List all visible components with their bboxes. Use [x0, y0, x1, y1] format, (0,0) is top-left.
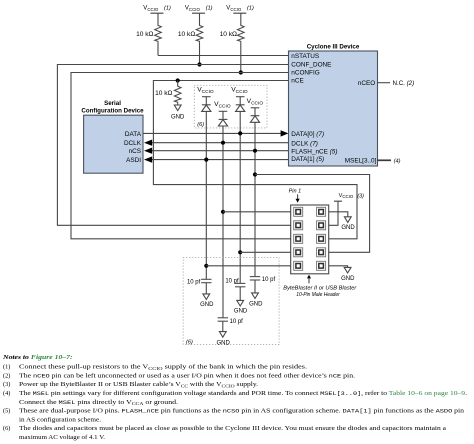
- diode D1: [202, 97, 211, 112]
- wire DCLK with arrow into serial device: [144, 140, 289, 146]
- svg-text:(3): (3): [357, 194, 364, 200]
- svg-text:ASDI: ASDI: [126, 157, 141, 164]
- wire nCS with arrow into serial device: [144, 148, 289, 154]
- wire nSTATUS: [158, 55, 289, 57]
- diode D2: [218, 111, 227, 126]
- svg-text:Cyclone III Device: Cyclone III Device: [307, 43, 360, 50]
- power symbol VCCIO for diode D2: [214, 101, 231, 111]
- wire R2 to CONF_DONE: [199, 43, 201, 65]
- power symbol VCCIO for diode D1: [197, 87, 214, 97]
- svg-text:(1): (1): [3, 364, 10, 371]
- wire nCONFIG with left loop to header pin5: [71, 73, 291, 239]
- svg-text:VCCIO: VCCIO: [185, 6, 201, 12]
- svg-text:FLASH_nCE (5): FLASH_nCE (5): [291, 148, 337, 155]
- ground GND header pin10: [329, 266, 355, 282]
- svg-text:Power up the ByteBlaster II or: Power up the ByteBlaster II or USB Blast…: [19, 381, 258, 388]
- svg-text:VCCIO: VCCIO: [143, 6, 159, 12]
- wire R3 to nCONFIG: [240, 43, 242, 73]
- svg-text:VCCIO: VCCIO: [214, 101, 231, 109]
- label Pin 1 with arrow: [289, 189, 302, 203]
- svg-text:The MSEL pin settings vary for: The MSEL pin settings vary for different…: [19, 390, 468, 397]
- svg-text:The diodes and capacitors must: The diodes and capacitors must be placed…: [19, 425, 446, 432]
- svg-text:DCLK: DCLK: [124, 140, 142, 147]
- svg-text:(3): (3): [3, 381, 10, 388]
- svg-text:The nCEO pin can be left uncon: The nCEO pin can be left unconnected or …: [19, 372, 356, 379]
- svg-text:(2): (2): [3, 372, 10, 379]
- svg-text:nCEO: nCEO: [358, 80, 375, 87]
- svg-text:N.C. (2): N.C. (2): [393, 80, 415, 87]
- junction R3-nCONFIG: [239, 70, 243, 74]
- junction N2-header row1: [221, 210, 225, 214]
- svg-text:(1): (1): [247, 6, 254, 12]
- svg-text:10 pf: 10 pf: [262, 277, 276, 283]
- pin 3 pad: [294, 221, 303, 230]
- pin 8 pad: [317, 248, 326, 257]
- dashed box diodes (6): [194, 85, 267, 128]
- power symbol VCCIO for diode D3: [231, 87, 248, 97]
- junction N3-header row4: [238, 250, 242, 254]
- wire nCE loop to header pin6: [153, 81, 357, 239]
- power symbol VCCIO (1) for R1: [143, 6, 171, 14]
- capacitor C1 10 pf: [187, 279, 212, 285]
- svg-text:(4): (4): [3, 390, 10, 397]
- ground GND below C1: [200, 283, 214, 309]
- svg-text:10 kΩ: 10 kΩ: [178, 31, 195, 38]
- svg-text:Pin 1: Pin 1: [289, 189, 302, 195]
- diode D3: [236, 97, 245, 112]
- junction N1-header row5: [204, 264, 208, 268]
- svg-text:VCCIO: VCCIO: [226, 6, 242, 12]
- svg-text:(5): (5): [3, 408, 10, 415]
- dashed box capacitors (6): [183, 257, 279, 345]
- svg-text:10 kΩ: 10 kΩ: [136, 31, 153, 38]
- svg-text:10 kΩ: 10 kΩ: [220, 31, 237, 38]
- pin 7 pad: [294, 248, 303, 257]
- svg-text:(6): (6): [3, 425, 10, 432]
- junction N4-nCS: [253, 149, 257, 153]
- junction N4-loop to pin8: [253, 172, 257, 176]
- svg-text:GND: GND: [341, 276, 355, 282]
- svg-text:nCONFIG: nCONFIG: [291, 69, 319, 76]
- svg-text:GND: GND: [341, 225, 355, 231]
- diode D4: [250, 108, 259, 122]
- wire R1 to nSTATUS: [157, 43, 159, 56]
- junction N2-DCLK: [221, 141, 225, 145]
- svg-text:DCLK (7): DCLK (7): [291, 140, 318, 147]
- svg-text:VCCIO: VCCIO: [339, 193, 354, 199]
- ground GND below C4: [249, 280, 263, 307]
- svg-text:10-Pin Male Header: 10-Pin Male Header: [296, 292, 340, 298]
- svg-text:ByteBlaster II or USB Blaster: ByteBlaster II or USB Blaster: [283, 286, 357, 292]
- svg-text:10 pf: 10 pf: [225, 279, 239, 285]
- junction R2-CONF_DONE: [197, 62, 201, 66]
- svg-text:10 pf: 10 pf: [230, 319, 244, 325]
- wire nCEO to N.C.: [378, 82, 391, 84]
- svg-text:nCE: nCE: [291, 78, 303, 85]
- wire ASDI with arrow into serial device: [144, 156, 289, 162]
- svg-text:GND: GND: [200, 302, 214, 308]
- pin 6 pad: [317, 234, 326, 243]
- resistor R4 10 kOhm nCE pulldown: [155, 81, 181, 104]
- header connector J1 body: [291, 205, 329, 274]
- svg-text:GND: GND: [171, 115, 185, 121]
- svg-text:MSEL[3..0]: MSEL[3..0]: [345, 157, 377, 164]
- capacitor C3 10 pf: [225, 279, 245, 287]
- svg-text:(6): (6): [197, 122, 204, 128]
- svg-text:(4): (4): [394, 158, 401, 164]
- svg-text:VCCIO: VCCIO: [231, 87, 248, 95]
- junction nCE pulldown: [176, 78, 180, 82]
- wire DATA to DATA[0] with arrow into Cyclone: [143, 130, 288, 136]
- svg-text:Connect the MSEL pins directly: Connect the MSEL pins directly to VCCA o…: [19, 399, 179, 406]
- svg-text:VCCIO: VCCIO: [247, 98, 264, 106]
- pin 4 pad: [317, 221, 326, 230]
- wire MSEL stub: [378, 159, 392, 161]
- svg-text:DATA[1] (5): DATA[1] (5): [291, 156, 324, 163]
- svg-text:(1): (1): [206, 6, 213, 12]
- svg-text:GND: GND: [217, 340, 231, 346]
- pin 1 pad: [294, 207, 303, 216]
- svg-text:(6): (6): [186, 340, 193, 346]
- Cyclone III device U1: [289, 43, 378, 166]
- pin 10 pad: [317, 261, 326, 270]
- svg-text:GND: GND: [234, 309, 248, 315]
- wire DCLK to header pin1: [223, 211, 291, 213]
- wire CONF_DONE with left loop to header pin3: [57, 65, 290, 226]
- capacitor C4 10 pf: [250, 277, 276, 283]
- label ByteBlaster with leader arrow: [283, 275, 357, 298]
- wire net DATA0 vertical N3: [239, 112, 241, 284]
- ground GND below R4: [171, 103, 185, 120]
- svg-text:Connect these pull-up resistor: Connect these pull-up resistors to the V…: [19, 364, 308, 371]
- pin 5 pad: [294, 234, 303, 243]
- svg-text:10 pf: 10 pf: [187, 279, 201, 285]
- svg-text:nCS: nCS: [129, 148, 141, 155]
- power symbol VCCIO for diode D4: [247, 98, 264, 108]
- serial configuration device U2: [81, 100, 144, 173]
- junction N1-ASDI: [204, 158, 208, 162]
- junction N3-DATA: [238, 131, 242, 135]
- power symbol VCCIO (1) for R2: [185, 6, 213, 14]
- svg-text:in AS configuration scheme.: in AS configuration scheme.: [19, 416, 101, 423]
- svg-text:(1): (1): [164, 6, 171, 12]
- wire net DCLK vertical N2: [222, 126, 224, 318]
- wire net ASDI vertical N1: [205, 112, 207, 280]
- resistor R3 10 kOhm: [220, 13, 245, 42]
- svg-text:maximum AC voltage of 4.1 V.: maximum AC voltage of 4.1 V.: [19, 434, 105, 441]
- capacitor C2 10 pf: [218, 318, 244, 325]
- wire nCS loop to header pin8: [255, 175, 370, 253]
- svg-text:CONF_DONE: CONF_DONE: [291, 62, 331, 69]
- svg-text:DATA: DATA: [125, 131, 142, 138]
- power symbol VCCIO (1) for R3: [226, 6, 254, 14]
- resistor R2 10 kOhm: [178, 13, 203, 42]
- svg-text:nSTATUS: nSTATUS: [291, 53, 319, 60]
- ground GND below C2: [217, 321, 231, 346]
- svg-text:Configuration Device: Configuration Device: [81, 107, 144, 114]
- svg-text:GND: GND: [249, 301, 263, 307]
- wire ASDI to header pin9: [206, 265, 290, 267]
- pin 2 pad: [317, 207, 326, 216]
- wire net nCS vertical N4: [254, 122, 256, 276]
- svg-text:VCCIO: VCCIO: [197, 87, 214, 95]
- ground GND header pin2: [329, 212, 356, 231]
- power symbol VCCIO (3) at header: [329, 193, 364, 226]
- resistor R1 10 kOhm: [136, 13, 161, 42]
- svg-text:These are dual-purpose I/O pin: These are dual-purpose I/O pins. FLASH_n…: [19, 408, 465, 415]
- svg-text:DATA[0] (7): DATA[0] (7): [291, 131, 324, 138]
- ground GND below C3: [234, 287, 248, 315]
- svg-text:Serial: Serial: [104, 100, 121, 107]
- wire DATA0 to header pin7: [240, 251, 291, 253]
- pin 9 pad: [294, 261, 303, 270]
- svg-text:10 kΩ: 10 kΩ: [155, 90, 172, 97]
- svg-text:Notes to Figure 10–7:: Notes to Figure 10–7:: [2, 354, 73, 361]
